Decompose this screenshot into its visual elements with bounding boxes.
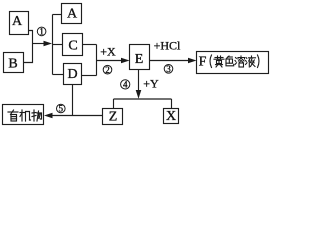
svg-text:+X: +X	[100, 45, 116, 59]
svg-text:E: E	[135, 52, 144, 67]
drop to X	[171, 99, 173, 109]
fullwidth )	[258, 55, 260, 68]
svg-text:5: 5	[59, 104, 64, 114]
svg-text:B: B	[8, 57, 17, 72]
svg-text:2: 2	[105, 65, 110, 75]
letters in boxes	[8, 7, 206, 125]
char 液	[246, 56, 256, 67]
box X	[164, 109, 179, 124]
wire D down	[72, 85, 74, 116]
bracket vertical	[52, 15, 54, 75]
CJK: 有机物 (hand-drawn strokes)	[8, 110, 42, 121]
stub to D	[53, 74, 64, 76]
box organic (有机物)	[3, 105, 44, 125]
svg-text:D: D	[67, 67, 77, 82]
char 黄	[214, 56, 224, 67]
box E	[130, 45, 150, 70]
box A1	[10, 12, 29, 35]
wire E down shaft	[138, 70, 140, 91]
reaction labels	[100, 39, 181, 91]
char 溶	[235, 56, 245, 67]
step 2	[103, 65, 112, 74]
svg-text:F: F	[199, 55, 207, 70]
char 物	[32, 110, 42, 121]
step 4	[121, 80, 130, 89]
svg-text:A: A	[12, 14, 23, 29]
wire B to junction	[24, 44, 33, 63]
box B	[4, 53, 24, 73]
wire arrow2 shaft (+X)	[97, 60, 124, 62]
svg-text:C: C	[68, 39, 77, 54]
step 3	[164, 65, 173, 74]
T horizontal	[114, 98, 172, 100]
arrowhead 2 (into E)	[121, 58, 130, 64]
wire arrow3 shaft (+HCl)	[150, 60, 191, 62]
char 有	[8, 110, 18, 121]
arrowhead 4 (E down)	[136, 90, 142, 99]
stub to A2	[53, 14, 62, 16]
box F	[197, 52, 269, 74]
wire Z to organic shaft	[51, 115, 103, 117]
svg-text:A: A	[67, 7, 78, 22]
arrowhead 5 (into organic)	[44, 113, 53, 119]
svg-text:+Y: +Y	[143, 77, 159, 91]
svg-text:X: X	[166, 109, 176, 124]
box A2	[62, 4, 82, 24]
wire arrow1 shaft	[33, 43, 46, 45]
wire D out	[82, 75, 97, 77]
step 5	[57, 104, 66, 113]
svg-text:+HCl: +HCl	[154, 39, 181, 53]
arrowhead 1 (into bracket)	[44, 41, 53, 47]
box D	[64, 64, 82, 85]
svg-text:3: 3	[166, 64, 171, 74]
wire A1 to junction	[29, 31, 33, 44]
wire C out	[83, 44, 97, 46]
char 机	[20, 110, 31, 121]
svg-text:Z: Z	[109, 110, 118, 125]
arrowhead 3 (into F)	[188, 58, 197, 64]
F box content: （黄色溶液）	[210, 55, 259, 68]
stub to C	[53, 44, 63, 46]
box C	[63, 34, 83, 56]
char 色	[226, 56, 234, 66]
circled step numbers	[37, 27, 173, 114]
junction vertical C/D	[96, 45, 98, 76]
svg-text:1: 1	[39, 27, 44, 37]
fullwidth (	[210, 55, 212, 68]
step 1	[37, 27, 46, 36]
svg-text:4: 4	[123, 80, 128, 90]
drop to Z	[113, 99, 115, 109]
box Z	[103, 109, 123, 125]
